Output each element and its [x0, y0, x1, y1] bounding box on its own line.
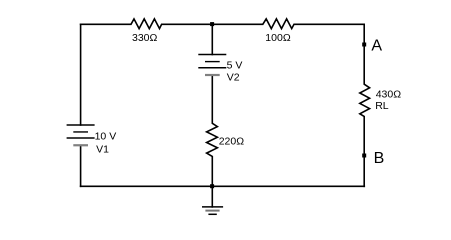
svg-text:A: A — [371, 38, 382, 55]
svg-text:330Ω: 330Ω — [132, 32, 158, 44]
svg-text:B: B — [374, 150, 385, 167]
svg-text:V1: V1 — [96, 143, 109, 155]
svg-text:5 V: 5 V — [227, 60, 243, 72]
svg-text:100Ω: 100Ω — [265, 32, 291, 44]
svg-text:220Ω: 220Ω — [219, 136, 245, 148]
svg-text:10 V: 10 V — [95, 131, 117, 143]
svg-text:V2: V2 — [227, 72, 240, 84]
svg-text:RL: RL — [375, 100, 389, 112]
